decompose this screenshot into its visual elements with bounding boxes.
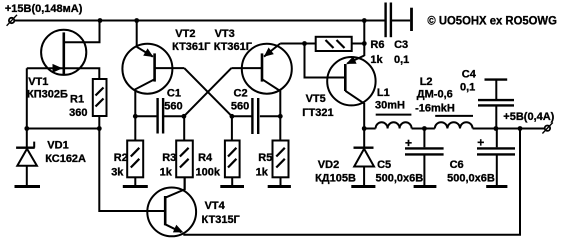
svg-text:VT1: VT1 [28, 76, 48, 88]
svg-text:VT2: VT2 [175, 28, 195, 40]
svg-text:ДМ-0,6: ДМ-0,6 [417, 89, 453, 101]
svg-text:R4: R4 [198, 152, 213, 164]
svg-text:КТ361Г: КТ361Г [172, 41, 211, 53]
svg-text:+: + [477, 136, 484, 150]
svg-text:КТ315Г: КТ315Г [202, 214, 241, 226]
svg-text:1k: 1k [370, 54, 383, 66]
svg-text:C6: C6 [450, 159, 464, 171]
svg-text:-16mkH: -16mkH [415, 102, 455, 114]
svg-text:C2: C2 [234, 88, 248, 100]
svg-text:C4: C4 [462, 69, 477, 81]
svg-text:L1: L1 [377, 87, 390, 99]
svg-text:R5: R5 [258, 152, 272, 164]
svg-text:VT5: VT5 [306, 93, 326, 105]
svg-text:500,0х6В: 500,0х6В [447, 173, 495, 185]
svg-text:КД105В: КД105В [315, 173, 356, 185]
svg-text:30mH: 30mH [375, 100, 405, 112]
svg-text:КС162А: КС162А [45, 153, 86, 165]
svg-text:0,1: 0,1 [460, 81, 475, 93]
svg-text:+5В(0,4А): +5В(0,4А) [503, 111, 554, 123]
svg-text:C3: C3 [394, 39, 408, 51]
svg-text:L2: L2 [420, 76, 433, 88]
svg-text:1k: 1k [160, 166, 173, 178]
svg-text:C5: C5 [377, 159, 391, 171]
svg-text:ГТ321: ГТ321 [302, 107, 333, 119]
svg-text:VT4: VT4 [205, 200, 226, 212]
svg-text:1k: 1k [256, 166, 269, 178]
svg-text:VT3: VT3 [215, 28, 235, 40]
svg-text:КП302Б: КП302Б [27, 88, 68, 100]
svg-text:0,1: 0,1 [394, 54, 409, 66]
svg-text:3k: 3k [111, 166, 124, 178]
svg-text:560: 560 [231, 101, 249, 113]
svg-text:560: 560 [164, 101, 182, 113]
svg-text:R1: R1 [70, 93, 84, 105]
svg-text:VD1: VD1 [47, 139, 68, 151]
svg-text:500,0х6В: 500,0х6В [376, 173, 424, 185]
svg-text:100k: 100k [196, 166, 221, 178]
svg-text:R6: R6 [370, 39, 384, 51]
svg-text:© UO5OHX ex RO5OWG: © UO5OHX ex RO5OWG [427, 14, 557, 28]
svg-text:R3: R3 [162, 152, 176, 164]
svg-text:VD2: VD2 [318, 159, 339, 171]
svg-text:+: + [405, 136, 412, 150]
svg-text:C1: C1 [167, 88, 181, 100]
svg-text:R2: R2 [114, 152, 128, 164]
svg-text:КТ361Г: КТ361Г [214, 41, 253, 53]
svg-text:+15В(0,148мА): +15В(0,148мА) [5, 3, 83, 15]
svg-text:360: 360 [69, 107, 87, 119]
